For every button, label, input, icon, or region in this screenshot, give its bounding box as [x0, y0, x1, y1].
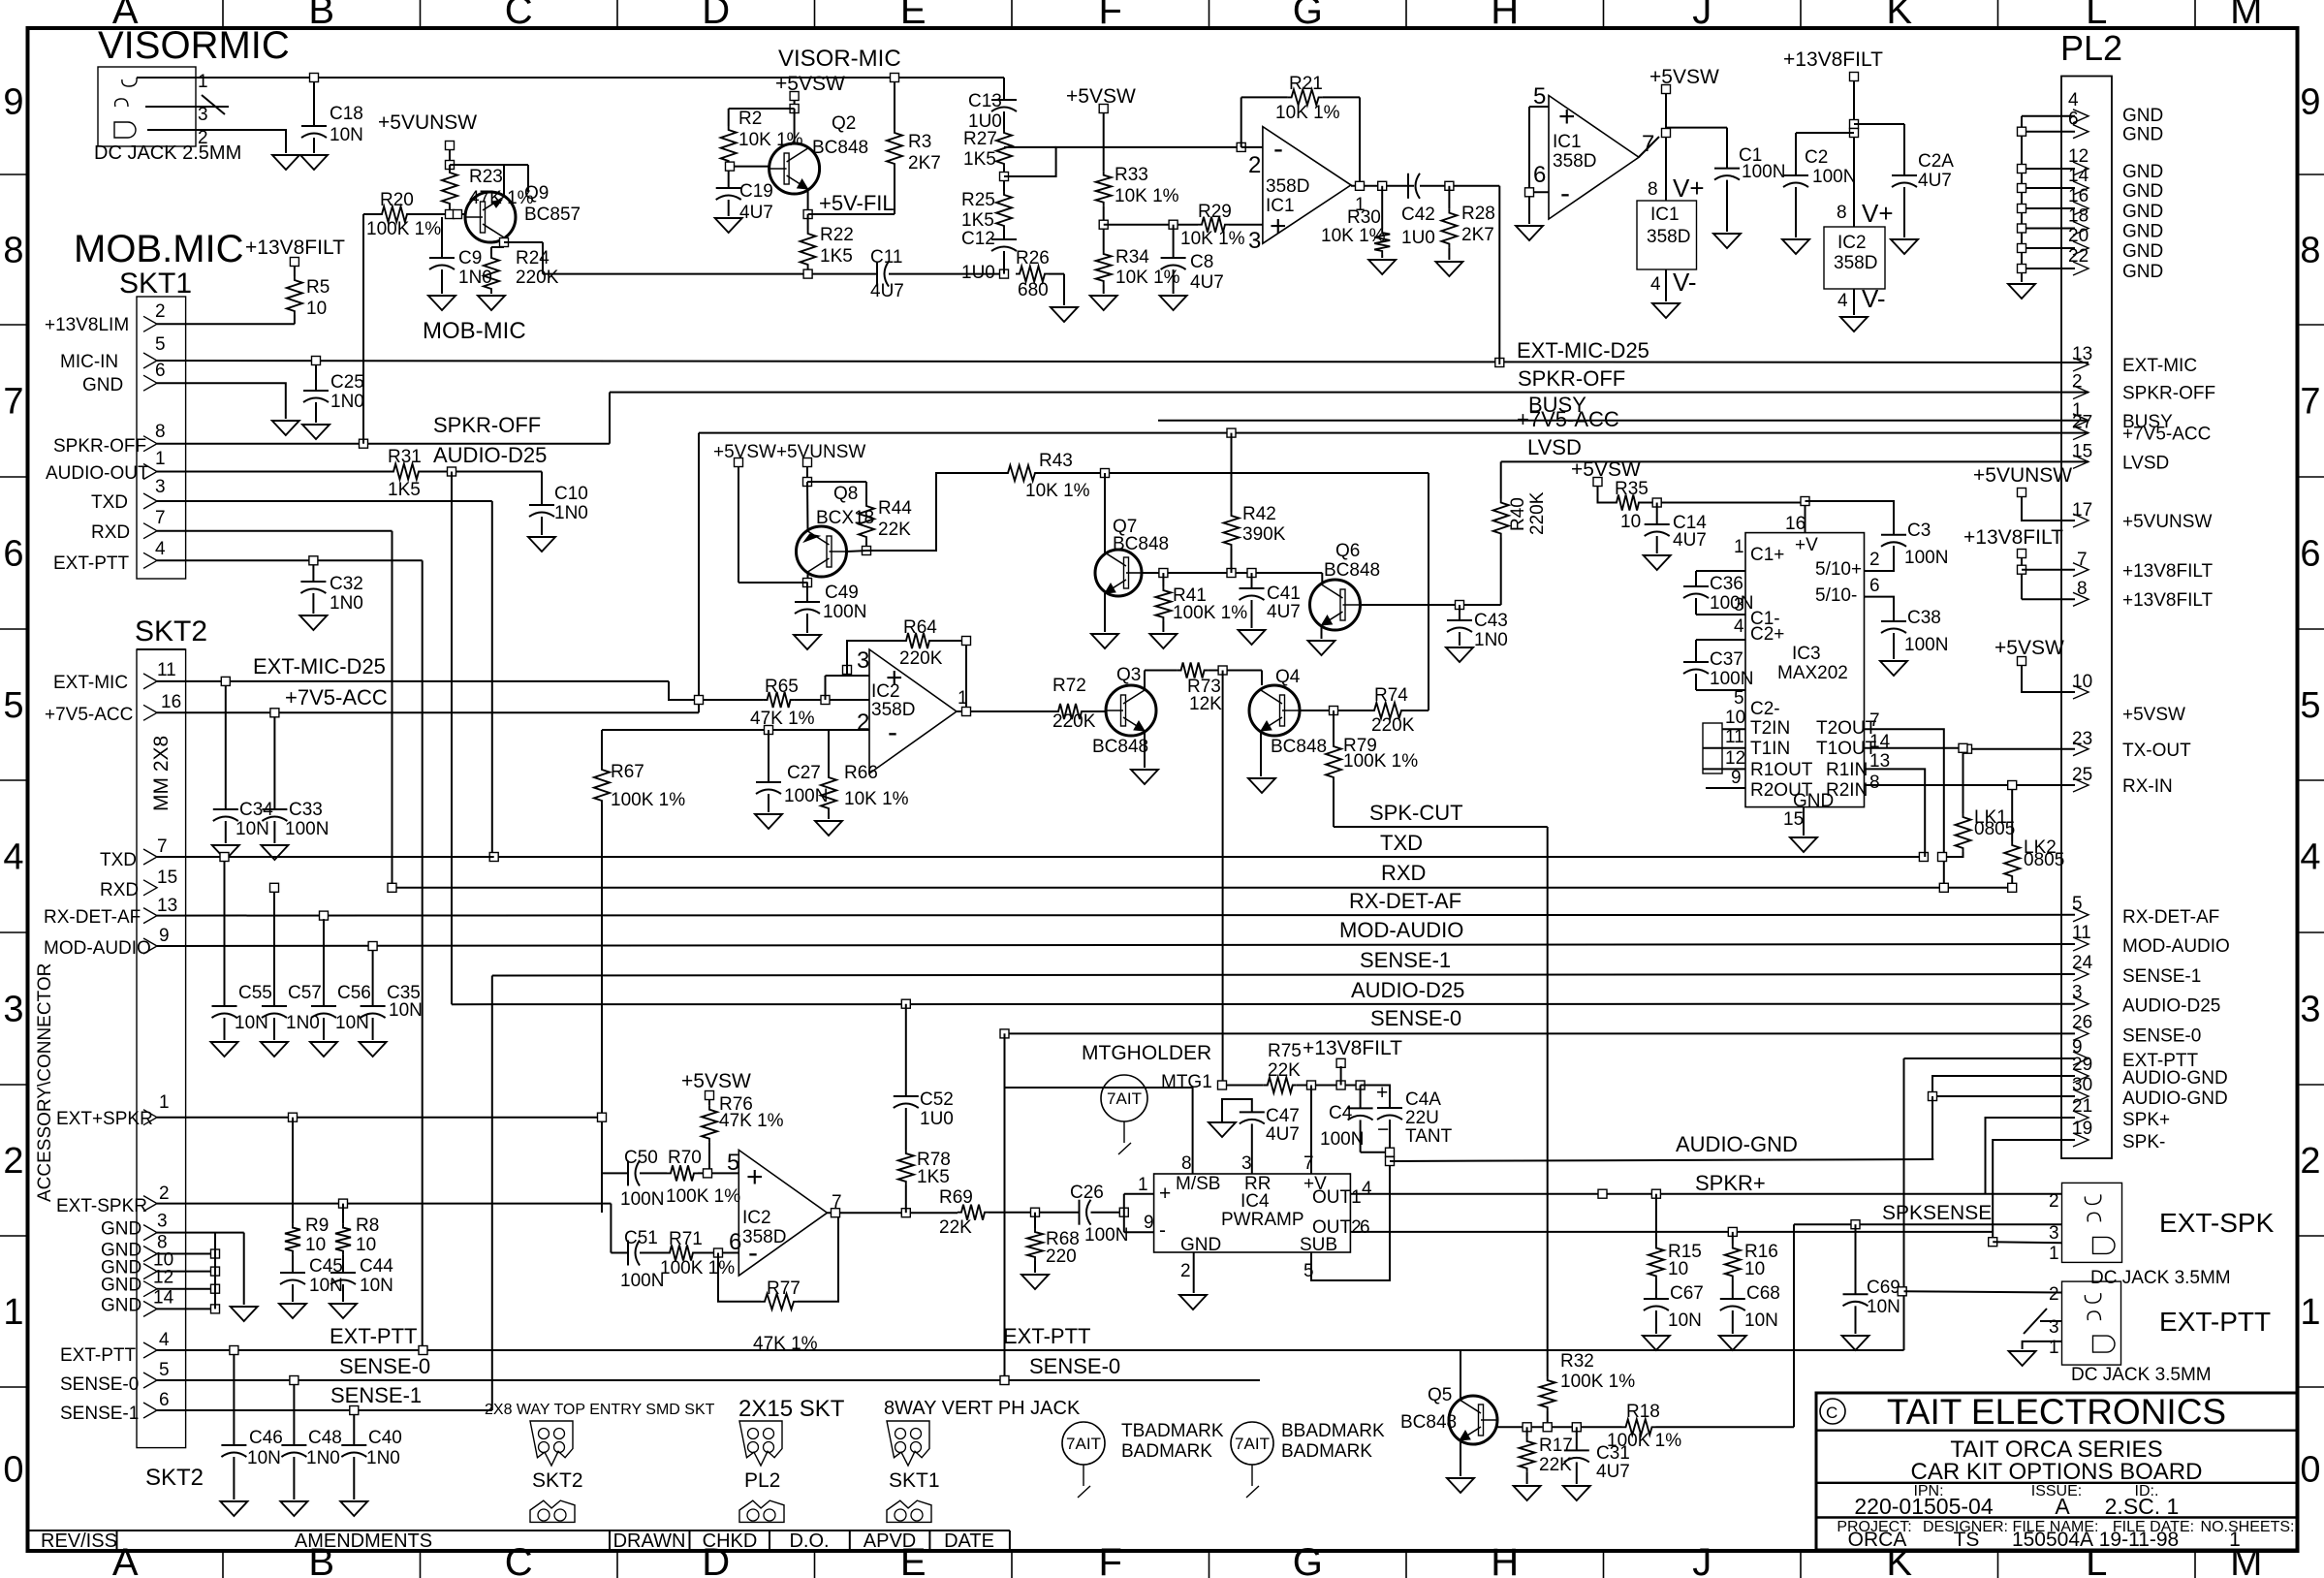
svg-text:C27: C27 — [787, 763, 821, 783]
svg-text:Q3: Q3 — [1116, 665, 1141, 685]
svg-text:M: M — [2230, 0, 2262, 32]
svg-text:1U0: 1U0 — [920, 1109, 954, 1129]
svg-text:BC848: BC848 — [1324, 560, 1380, 581]
svg-text:R22: R22 — [820, 225, 854, 245]
svg-text:SENSE-1: SENSE-1 — [60, 1404, 139, 1424]
ground — [1021, 1275, 1049, 1289]
capacitor C14 — [1656, 503, 1658, 525]
wire pin2 input — [1241, 146, 1263, 148]
svg-text:220K: 220K — [516, 268, 559, 288]
svg-text:100K 1%: 100K 1% — [660, 1258, 735, 1278]
svg-text:EXT+SPKR: EXT+SPKR — [56, 1109, 153, 1129]
svg-text:R40: R40 — [1508, 497, 1528, 531]
link LK2 — [2011, 785, 2013, 841]
svg-text:AUDIO-GND: AUDIO-GND — [2122, 1089, 2228, 1109]
svg-text:SPK-CUT: SPK-CUT — [1369, 801, 1463, 825]
svg-text:R28: R28 — [1461, 204, 1495, 224]
svg-text:2X15 SKT: 2X15 SKT — [738, 1396, 845, 1422]
C37 pin stubs — [1696, 639, 1745, 641]
svg-text:C: C — [505, 0, 533, 32]
svg-text:3: 3 — [2049, 1223, 2059, 1244]
svg-text:TS: TS — [1954, 1529, 1980, 1551]
transistor Q5 BC848 — [1449, 1396, 1497, 1444]
ground — [1652, 303, 1680, 318]
svg-text:BC857: BC857 — [524, 205, 581, 225]
svg-text:EXT-PTT: EXT-PTT — [1003, 1324, 1090, 1348]
svg-text:3: 3 — [1241, 1153, 1252, 1174]
ground — [1209, 1122, 1236, 1137]
svg-text:10N: 10N — [309, 1276, 343, 1296]
svg-text:SUB: SUB — [1300, 1235, 1337, 1255]
ground — [478, 296, 505, 310]
svg-text:2X8 WAY TOP ENTRY SMD SKT: 2X8 WAY TOP ENTRY SMD SKT — [485, 1402, 715, 1418]
ground — [428, 296, 455, 310]
svg-text:+: + — [746, 1161, 764, 1193]
svg-text:2: 2 — [2049, 1284, 2059, 1305]
svg-text:H: H — [1491, 0, 1519, 32]
bus RX-DET-AF — [157, 914, 2075, 917]
resistor R74 — [1370, 703, 1405, 718]
svg-text:-: - — [1273, 133, 1283, 165]
svg-text:IC3: IC3 — [1792, 644, 1821, 664]
ground — [272, 155, 299, 170]
svg-text:4U7: 4U7 — [1596, 1462, 1630, 1482]
svg-text:2: 2 — [1180, 1261, 1191, 1281]
svg-text:4: 4 — [2300, 837, 2320, 878]
transistor Q8 BCX18 — [797, 526, 847, 577]
svg-text:6: 6 — [1533, 162, 1546, 188]
svg-text:C42: C42 — [1401, 205, 1435, 225]
resistor R44 — [859, 502, 874, 541]
svg-text:4: 4 — [1650, 274, 1661, 295]
resistor R26 — [1016, 267, 1049, 282]
svg-text:Q2: Q2 — [832, 113, 856, 134]
svg-text:BADMARK: BADMARK — [1281, 1441, 1372, 1462]
svg-text:100N: 100N — [1320, 1129, 1364, 1150]
transistor Q4 BC848 — [1261, 671, 1263, 686]
wire IC2b output — [828, 1212, 958, 1214]
wire EXT+SPKR to C50 — [601, 1118, 603, 1213]
svg-text:IC2: IC2 — [871, 681, 900, 702]
ground — [1790, 837, 1817, 852]
svg-text:12K: 12K — [1189, 694, 1222, 714]
wire pin5 pin6 — [1529, 106, 1549, 108]
svg-text:E: E — [900, 0, 926, 32]
capacitor C49 — [806, 583, 808, 602]
capacitor C57 — [273, 892, 275, 1006]
connector SKT2 box — [137, 649, 186, 1448]
wire Q3 collector to R73 — [1144, 671, 1146, 691]
wire visor pin3 with switch — [145, 106, 229, 108]
svg-text:GND: GND — [101, 1219, 141, 1240]
svg-text:G: G — [1293, 0, 1323, 32]
svg-text:IC1: IC1 — [1553, 132, 1582, 152]
svg-text:+5VUNSW: +5VUNSW — [1973, 464, 2072, 487]
svg-text:SENSE-0: SENSE-0 — [2122, 1026, 2201, 1046]
wire R73 drop to R75 — [1222, 671, 1224, 1086]
svg-text:0805: 0805 — [2024, 850, 2064, 870]
ground — [1051, 307, 1078, 322]
svg-text:19: 19 — [2072, 1119, 2092, 1139]
svg-text:1N0: 1N0 — [306, 1448, 340, 1468]
wire LVSD drop to R40 — [1500, 461, 1502, 498]
resistor R2 — [729, 108, 795, 110]
svg-text:APVD: APVD — [864, 1531, 916, 1552]
svg-text:VISOR-MIC: VISOR-MIC — [778, 46, 901, 72]
logo TBADMARK — [1062, 1422, 1105, 1465]
ground — [1842, 1336, 1869, 1350]
svg-text:3: 3 — [857, 647, 869, 674]
svg-text:BBADMARK: BBADMARK — [1281, 1421, 1385, 1441]
resistor R18 — [1622, 1419, 1656, 1435]
svg-text:10N: 10N — [1867, 1297, 1900, 1317]
svg-text:MTG1: MTG1 — [1161, 1072, 1212, 1092]
svg-text:10K 1%: 10K 1% — [1275, 103, 1340, 123]
capacitor C47 grounded top — [1222, 1099, 1252, 1122]
svg-text:R69: R69 — [939, 1187, 973, 1208]
svg-text:T1IN: T1IN — [1750, 739, 1790, 759]
wire C13 column — [1003, 78, 1005, 100]
wire Q5 emitter — [1460, 1440, 1461, 1476]
svg-text:AUDIO-GND: AUDIO-GND — [1676, 1132, 1798, 1156]
wire inverting input — [1004, 146, 1056, 148]
ground — [1368, 260, 1396, 274]
wire Q9 collector — [503, 237, 505, 247]
svg-text:-: - — [1560, 177, 1570, 209]
svg-text:220K: 220K — [1052, 711, 1096, 732]
capacitor C2A — [1892, 174, 1917, 176]
svg-text:C57: C57 — [288, 983, 322, 1003]
op-amp IC2 358D b — [738, 1150, 827, 1276]
svg-text:24: 24 — [2072, 953, 2093, 973]
bus SPKR-OFF — [610, 392, 2088, 394]
svg-text:J: J — [1692, 1541, 1712, 1578]
ground — [715, 218, 742, 233]
resistor R3 — [894, 78, 895, 129]
svg-text:+5VUNSW: +5VUNSW — [378, 111, 477, 134]
svg-text:EXT-MIC-D25: EXT-MIC-D25 — [253, 654, 386, 679]
svg-text:5: 5 — [2300, 685, 2320, 726]
logo BBADMARK — [1231, 1422, 1273, 1465]
bus RXD — [393, 887, 2013, 889]
svg-text:SPKR+: SPKR+ — [1695, 1171, 1766, 1195]
svg-text:22K: 22K — [1539, 1455, 1572, 1475]
svg-text:1: 1 — [1734, 537, 1744, 557]
svg-text:1K5: 1K5 — [961, 210, 994, 231]
svg-text:2: 2 — [2049, 1191, 2059, 1212]
resistor R29 — [1198, 217, 1229, 233]
gnd rail — [2021, 116, 2023, 282]
svg-text:TXD: TXD — [100, 850, 137, 870]
svg-text:+5VSW: +5VSW — [1994, 637, 2064, 659]
ground — [1516, 226, 1543, 240]
capacitor C10 — [529, 504, 554, 506]
svg-text:8: 8 — [1181, 1153, 1192, 1174]
svg-text:7: 7 — [1869, 710, 1880, 731]
resistor R9 — [292, 1118, 294, 1224]
svg-text:9: 9 — [1731, 768, 1742, 788]
svg-text:C2-: C2- — [1750, 699, 1780, 719]
svg-text:GND: GND — [82, 375, 123, 395]
wire IC4 gnd pin2 — [1193, 1252, 1195, 1293]
svg-text:5: 5 — [1533, 83, 1546, 110]
svg-text:IC1: IC1 — [1266, 196, 1295, 216]
svg-text:C32: C32 — [330, 574, 363, 594]
svg-text:2: 2 — [3, 1141, 23, 1182]
svg-text:680: 680 — [1018, 280, 1049, 300]
wire pin4 ground — [1665, 269, 1667, 301]
svg-text:EXT-PTT: EXT-PTT — [330, 1324, 417, 1348]
switch slash ext-ptt — [2040, 1320, 2062, 1322]
transistor Q9 BC857 — [465, 192, 516, 242]
bus MOD-AUDIO — [157, 944, 2075, 946]
wire Q4 emitter — [1260, 731, 1262, 776]
svg-text:H: H — [1491, 1541, 1519, 1578]
svg-text:220K: 220K — [1371, 715, 1415, 736]
capacitor C4A tantalum — [1361, 1086, 1390, 1109]
svg-text:4: 4 — [2068, 90, 2079, 110]
svg-text:10K 1%: 10K 1% — [1025, 481, 1090, 501]
svg-text:3: 3 — [155, 477, 166, 497]
svg-text:220K: 220K — [899, 648, 943, 669]
capacitor C11 — [876, 262, 878, 287]
svg-text:EXT-PTT: EXT-PTT — [2159, 1307, 2271, 1337]
svg-text:100N: 100N — [1710, 593, 1753, 614]
svg-text:GND: GND — [2122, 162, 2163, 182]
svg-text:47K 1%: 47K 1% — [719, 1111, 784, 1131]
svg-text:BC848: BC848 — [1271, 737, 1327, 757]
svg-text:2K7: 2K7 — [908, 153, 941, 174]
svg-text:MOD-AUDIO: MOD-AUDIO — [2122, 936, 2230, 957]
wire Q9 base/C9 — [441, 217, 443, 258]
wire pin9 EXT-PTT drop — [1904, 1057, 2076, 1059]
svg-text:BC848: BC848 — [1092, 737, 1148, 757]
svg-text:15: 15 — [1783, 809, 1804, 830]
ground — [1090, 296, 1117, 310]
wire Q9 emitter — [503, 165, 505, 197]
svg-text:R77: R77 — [767, 1278, 801, 1299]
svg-text:14: 14 — [1869, 732, 1891, 752]
svg-text:C56: C56 — [337, 983, 371, 1003]
resistor R31 — [390, 464, 423, 480]
wire Q2 base — [729, 166, 769, 168]
svg-text:MOB-MIC: MOB-MIC — [423, 318, 526, 344]
ground — [755, 814, 782, 829]
svg-text:C68: C68 — [1746, 1283, 1780, 1304]
op-amp IC2 358D a — [869, 649, 957, 773]
svg-text:16: 16 — [1785, 514, 1806, 534]
svg-text:1K5: 1K5 — [963, 149, 996, 170]
svg-text:C: C — [505, 1541, 533, 1578]
svg-text:C4: C4 — [1329, 1103, 1353, 1123]
svg-text:GND: GND — [1793, 791, 1834, 811]
svg-text:EXT-PTT: EXT-PTT — [53, 553, 130, 574]
svg-text:100N: 100N — [1710, 669, 1753, 689]
svg-text:R18: R18 — [1626, 1402, 1660, 1422]
svg-text:+: + — [1159, 1183, 1171, 1205]
svg-text:R5: R5 — [306, 277, 330, 298]
svg-text:8: 8 — [1869, 773, 1880, 793]
wire R74 rise to R43 line — [1428, 473, 1429, 710]
svg-text:4: 4 — [155, 539, 166, 559]
copyright symbol — [1820, 1399, 1845, 1424]
svg-text:1: 1 — [2300, 1292, 2320, 1333]
svg-text:SKT2: SKT2 — [135, 615, 207, 647]
resistor R79 — [1333, 710, 1335, 742]
svg-text:+5VSW: +5VSW — [1649, 66, 1719, 88]
svg-text:DC JACK 3.5MM: DC JACK 3.5MM — [2090, 1268, 2231, 1288]
svg-text:C3: C3 — [1907, 521, 1931, 541]
svg-text:C26: C26 — [1070, 1183, 1104, 1203]
svg-text:3: 3 — [198, 105, 208, 125]
svg-text:V-: V- — [1862, 284, 1886, 313]
resistor R32 — [1540, 1376, 1555, 1411]
IC1 power box — [1637, 201, 1697, 269]
svg-text:6: 6 — [2300, 534, 2320, 575]
svg-text:R27: R27 — [963, 129, 997, 149]
svg-text:17: 17 — [2072, 500, 2092, 521]
capacitor C33 — [273, 717, 275, 809]
svg-text:SPKR-OFF: SPKR-OFF — [433, 413, 541, 437]
svg-text:29: 29 — [2072, 1055, 2092, 1075]
svg-text:1: 1 — [198, 72, 208, 92]
ground — [280, 1501, 307, 1516]
svg-text:100K 1%: 100K 1% — [1607, 1431, 1681, 1451]
IC4 input bracket — [1123, 1194, 1125, 1233]
wire pin4 ground — [1853, 289, 1855, 315]
wire AUDIO-GND — [1390, 1159, 1933, 1161]
capacitor C36 — [1695, 571, 1697, 586]
svg-text:GND: GND — [2122, 181, 2163, 202]
wire +7V5 rise — [698, 433, 700, 713]
svg-text:D.O.: D.O. — [789, 1531, 829, 1552]
wire SPK-CUT drop to R32 — [1547, 827, 1549, 1376]
svg-text:R35: R35 — [1615, 479, 1649, 499]
svg-text:R33: R33 — [1115, 165, 1148, 185]
svg-text:C50: C50 — [624, 1148, 658, 1168]
connector EXT-SPK jack — [2062, 1183, 2122, 1262]
svg-text:26: 26 — [2072, 1012, 2092, 1032]
svg-text:GND: GND — [2122, 222, 2163, 242]
svg-text:R75: R75 — [1268, 1041, 1302, 1061]
svg-text:Q6: Q6 — [1335, 541, 1360, 561]
svg-text:12: 12 — [1725, 748, 1745, 769]
svg-text:4U7: 4U7 — [1266, 1124, 1300, 1145]
ground — [1891, 239, 1918, 254]
svg-text:C69: C69 — [1867, 1278, 1900, 1298]
key symbol SKT1 — [887, 1500, 931, 1522]
svg-text:8WAY VERT PH JACK: 8WAY VERT PH JACK — [884, 1398, 1081, 1419]
svg-text:IC2: IC2 — [742, 1208, 771, 1228]
svg-text:14: 14 — [153, 1287, 174, 1308]
svg-text:SKT1: SKT1 — [119, 268, 192, 300]
wire SENSE0 link — [1004, 1033, 1006, 1088]
svg-text:DC JACK 2.5MM: DC JACK 2.5MM — [94, 142, 241, 164]
svg-text:SENSE-0: SENSE-0 — [1370, 1006, 1461, 1030]
capacitor C51 — [627, 1241, 629, 1266]
wire ext-ptt jack stub — [1904, 1291, 2062, 1292]
svg-text:C13: C13 — [968, 91, 1002, 111]
wire R67 drop — [601, 730, 603, 766]
svg-text:100N: 100N — [620, 1271, 664, 1291]
capacitor C37 — [1695, 640, 1697, 662]
capacitor C67 — [1644, 1298, 1669, 1300]
resistor R68 — [1034, 1213, 1036, 1228]
svg-text:1N0: 1N0 — [330, 392, 364, 412]
grid row ticks — [0, 174, 28, 175]
wire to EXT-MIC bus — [1498, 186, 1500, 364]
svg-text:+7V5-ACC: +7V5-ACC — [285, 685, 388, 710]
svg-text:4: 4 — [159, 1330, 170, 1350]
svg-text:AUDIO-GND: AUDIO-GND — [2122, 1068, 2228, 1089]
svg-text:AUDIO-OUT: AUDIO-OUT — [46, 463, 149, 484]
svg-text:2: 2 — [857, 710, 869, 736]
svg-text:LVSD: LVSD — [1527, 435, 1582, 459]
wire SENSE-0 drop — [1004, 1033, 1006, 1380]
wire Q6 base out — [1361, 604, 1501, 606]
ground — [360, 1042, 387, 1057]
wire spk pin1 — [1993, 1242, 2061, 1243]
svg-text:C51: C51 — [624, 1228, 658, 1248]
svg-text:TX-OUT: TX-OUT — [2122, 741, 2191, 761]
capacitor C41 — [1251, 573, 1253, 588]
svg-text:47K 1%: 47K 1% — [753, 1334, 818, 1354]
capacitor C43 — [1459, 605, 1460, 620]
capacitor C45 — [280, 1272, 305, 1274]
ground — [1840, 317, 1868, 331]
wire R33 junction to R29 — [1104, 224, 1198, 226]
svg-text:100K 1%: 100K 1% — [1173, 603, 1247, 623]
resistor R28 — [1448, 186, 1450, 209]
ground — [2008, 284, 2035, 299]
gnd rail skt2 — [214, 1233, 216, 1310]
svg-text:+13V8FILT: +13V8FILT — [245, 237, 345, 259]
svg-text:1N0: 1N0 — [554, 503, 588, 523]
svg-text:358D: 358D — [742, 1227, 786, 1247]
svg-text:5/10+: 5/10+ — [1815, 559, 1862, 580]
wire Q5 base row — [1496, 1420, 1498, 1427]
capacitor C52 chain from AUDIO-D25 — [905, 1004, 907, 1096]
svg-text:GND: GND — [2122, 241, 2163, 262]
svg-text:V+: V+ — [1673, 174, 1705, 203]
svg-text:DRAWN: DRAWN — [613, 1531, 686, 1552]
wire ext-mic to R65 — [669, 681, 699, 700]
svg-text:1: 1 — [159, 1092, 170, 1113]
wire mic signal rail — [543, 273, 877, 275]
svg-text:1N0: 1N0 — [1474, 630, 1508, 650]
svg-text:+: + — [1558, 101, 1576, 133]
capacitor C69 — [1855, 1224, 1857, 1294]
svg-text:7AIT: 7AIT — [1107, 1089, 1142, 1108]
capacitor C35 — [372, 950, 374, 1006]
svg-text:MOB.MIC: MOB.MIC — [74, 228, 244, 270]
svg-text:C40: C40 — [368, 1428, 402, 1448]
svg-text:J: J — [1692, 0, 1712, 32]
svg-text:C33: C33 — [289, 800, 323, 820]
svg-text:100N: 100N — [1904, 635, 1948, 655]
resistor R70 — [667, 1165, 698, 1181]
svg-text:SENSE-0: SENSE-0 — [60, 1374, 139, 1395]
link LK1 — [1963, 748, 1964, 813]
svg-text:1: 1 — [3, 1292, 23, 1333]
pin 8 +13V8FILT — [2022, 598, 2075, 600]
ground — [310, 1042, 337, 1057]
svg-text:100K 1%: 100K 1% — [1560, 1372, 1635, 1392]
svg-text:R64: R64 — [903, 617, 937, 638]
svg-text:1K5: 1K5 — [820, 246, 853, 267]
svg-text:10K 1%: 10K 1% — [1115, 186, 1179, 206]
wire Q8 bias — [807, 481, 866, 483]
